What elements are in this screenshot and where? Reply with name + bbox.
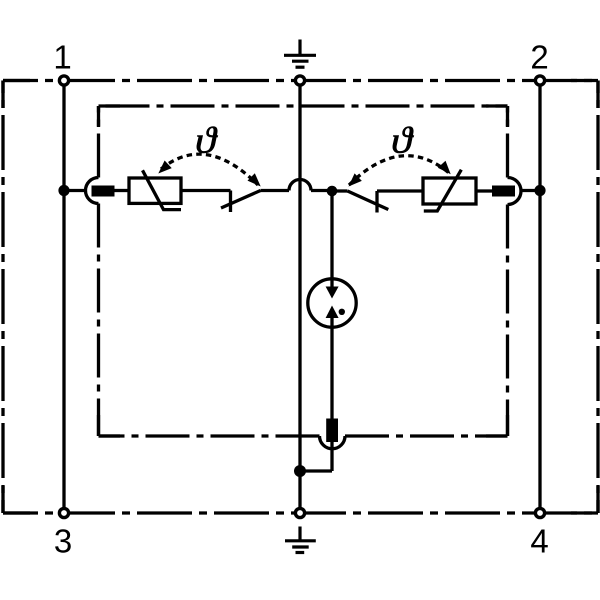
junction dot GDT branch <box>327 186 338 197</box>
inner border corner stubs <box>99 106 508 436</box>
thermal disconnect switch F1 blade <box>221 191 261 209</box>
arrowhead right arc right end <box>438 161 455 178</box>
gas discharge tube F3 envelope <box>308 279 356 327</box>
arrowhead left arc left end <box>155 160 172 177</box>
outer enclosure border (dash-dot) <box>3 81 598 514</box>
terminal 3 <box>59 508 68 517</box>
terminal 2 <box>535 76 544 85</box>
terminal bottom earth <box>295 508 304 517</box>
wire right bus (terminal 2 to terminal 4) <box>538 81 541 514</box>
thermal disconnect switch F2 fixed post <box>375 191 378 213</box>
svg-text:ϑ: ϑ <box>195 119 218 161</box>
terminal top earth <box>295 76 304 85</box>
wire gas discharge tube branch lower <box>330 429 333 471</box>
wire right branch segment 3 <box>476 189 492 192</box>
wire left branch segment 3 <box>181 189 231 192</box>
plug-in contact indentation arc bottom <box>320 436 346 449</box>
wire right branch segment 2 <box>377 189 423 192</box>
gas discharge tube F3 gas dot <box>339 309 345 315</box>
plug-in contact indentation arc left <box>86 178 99 204</box>
svg-text:1: 1 <box>53 39 71 76</box>
wire left branch segment 5 <box>311 189 332 192</box>
arrowhead left arc right end <box>247 173 264 190</box>
varistor RV2 body <box>423 178 476 204</box>
terminal 1 <box>59 76 68 85</box>
wire left branch segment 2 <box>115 189 130 192</box>
junction dot bottom center <box>294 465 306 477</box>
outer border corner stubs <box>3 81 598 514</box>
wire crossover hop over center line <box>289 180 311 191</box>
wire left branch segment 1 <box>64 189 85 192</box>
thermal disconnect switch F1 fixed post <box>229 191 232 213</box>
wire left bus (terminal 1 to terminal 3) <box>62 81 65 514</box>
junction dot right bus <box>534 185 545 196</box>
svg-text:4: 4 <box>530 523 548 560</box>
ground symbol bottom <box>285 527 316 553</box>
wire left branch segment 4 <box>261 189 290 192</box>
gas discharge tube F3 lower arrow <box>326 306 339 319</box>
varistor RV1 body <box>129 178 181 203</box>
svg-text:2: 2 <box>530 39 548 76</box>
inner protective-circuit border (dash-dot) <box>99 106 508 436</box>
wire bottom jog to center line <box>300 469 332 472</box>
gas discharge tube F3 upper electrode lead <box>330 277 333 288</box>
plug contact pin left <box>92 186 115 197</box>
arrowhead right arc left end <box>345 173 362 190</box>
terminal 4 <box>535 508 544 517</box>
svg-text:3: 3 <box>54 523 72 560</box>
gas discharge tube F3 lower electrode lead <box>330 318 333 430</box>
ground symbol top <box>284 40 316 68</box>
gas discharge tube F3 upper arrow <box>326 287 339 299</box>
plug-in contact indentation arc right <box>508 178 522 205</box>
varistor RV2 diagonal stroke <box>424 170 462 211</box>
junction dot left bus <box>58 185 69 196</box>
varistor RV1 diagonal stroke <box>143 170 182 209</box>
wire center earth line <box>298 81 301 514</box>
temperature actuation dashed arc left <box>161 154 258 185</box>
wire gas discharge tube branch upper <box>330 191 333 277</box>
plug contact pin bottom <box>326 419 338 443</box>
thermal disconnect switch F2 blade <box>348 191 389 210</box>
temperature actuation dashed arc right <box>349 156 449 185</box>
plug contact pin right <box>492 186 515 197</box>
wire right branch segment 1 <box>332 189 348 192</box>
svg-text:ϑ: ϑ <box>391 119 414 161</box>
wire right branch segment 4 <box>521 189 540 192</box>
